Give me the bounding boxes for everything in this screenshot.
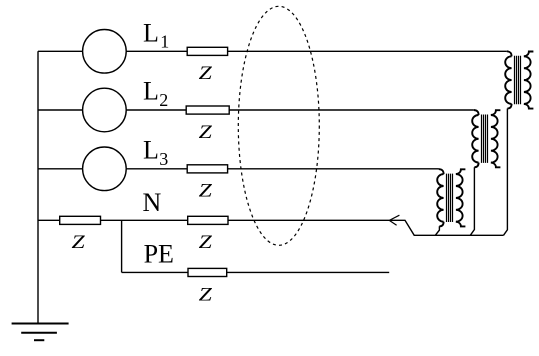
arrow on N line: [389, 215, 399, 225]
transformer U3: [437, 169, 465, 226]
wire: L3 source to resistor Z3: [126, 168, 187, 170]
svg-text:Z: Z: [199, 233, 213, 253]
wire: N line to return bus: [228, 220, 504, 235]
resistor Z1 (line L1): [187, 47, 227, 55]
wire: bus to neutral resistor ZN1: [38, 219, 60, 221]
source circle L2: [83, 88, 127, 132]
node PE-branch: vertical drop from N to PE: [121, 220, 123, 272]
svg-text:L: L: [143, 19, 159, 48]
source circle L1: [83, 30, 127, 74]
svg-text:Z: Z: [199, 182, 213, 202]
svg-text:Z: Z: [199, 123, 213, 143]
source circle L3: [83, 147, 127, 191]
svg-text:Z: Z: [199, 285, 213, 305]
wire: bus to L1 source: [38, 50, 83, 52]
ground: [12, 324, 69, 341]
svg-text:Z: Z: [72, 233, 86, 253]
wire: main vertical bus from L1 down to ground: [37, 51, 39, 323]
wire: U2 primary return to bus: [470, 167, 474, 235]
wire: L2 resistor to transformer U2: [229, 109, 474, 111]
svg-text:2: 2: [159, 90, 168, 110]
svg-text:N: N: [143, 188, 162, 217]
wire: bus to L3 source: [38, 168, 83, 170]
resistor Z3 (line L3): [187, 165, 227, 173]
wire: ZN1 to node PE-branch: [101, 219, 188, 221]
svg-text:Z: Z: [199, 64, 213, 84]
wire: bus to L2 source: [38, 109, 83, 111]
resistor ZPE (PE line): [188, 268, 227, 276]
svg-text:PE: PE: [144, 240, 174, 269]
wire: L3 resistor to transformer U3: [228, 168, 439, 170]
cable ellipse (dashed): [238, 6, 319, 245]
transformer U1: [505, 51, 533, 108]
resistor Z2 (line L2): [186, 106, 229, 114]
wire: L1 resistor to transformer U1: [228, 50, 507, 52]
wire: U1 primary return to bus: [504, 109, 508, 236]
resistor ZN1 (neutral, left): [60, 216, 101, 224]
wire: L2 source to resistor Z2: [126, 109, 186, 111]
transformer U2: [472, 110, 500, 167]
wire: PE node to resistor ZPE: [122, 271, 188, 273]
resistor ZN2 (neutral, right): [188, 216, 228, 224]
wire: PE resistor to open end: [227, 271, 390, 273]
svg-text:L: L: [143, 135, 159, 164]
svg-text:L: L: [143, 77, 159, 106]
wire: L1 source to resistor Z1: [126, 50, 187, 52]
svg-text:3: 3: [159, 149, 168, 169]
wire: U3 primary return to bus: [435, 226, 439, 235]
svg-text:1: 1: [160, 32, 169, 52]
